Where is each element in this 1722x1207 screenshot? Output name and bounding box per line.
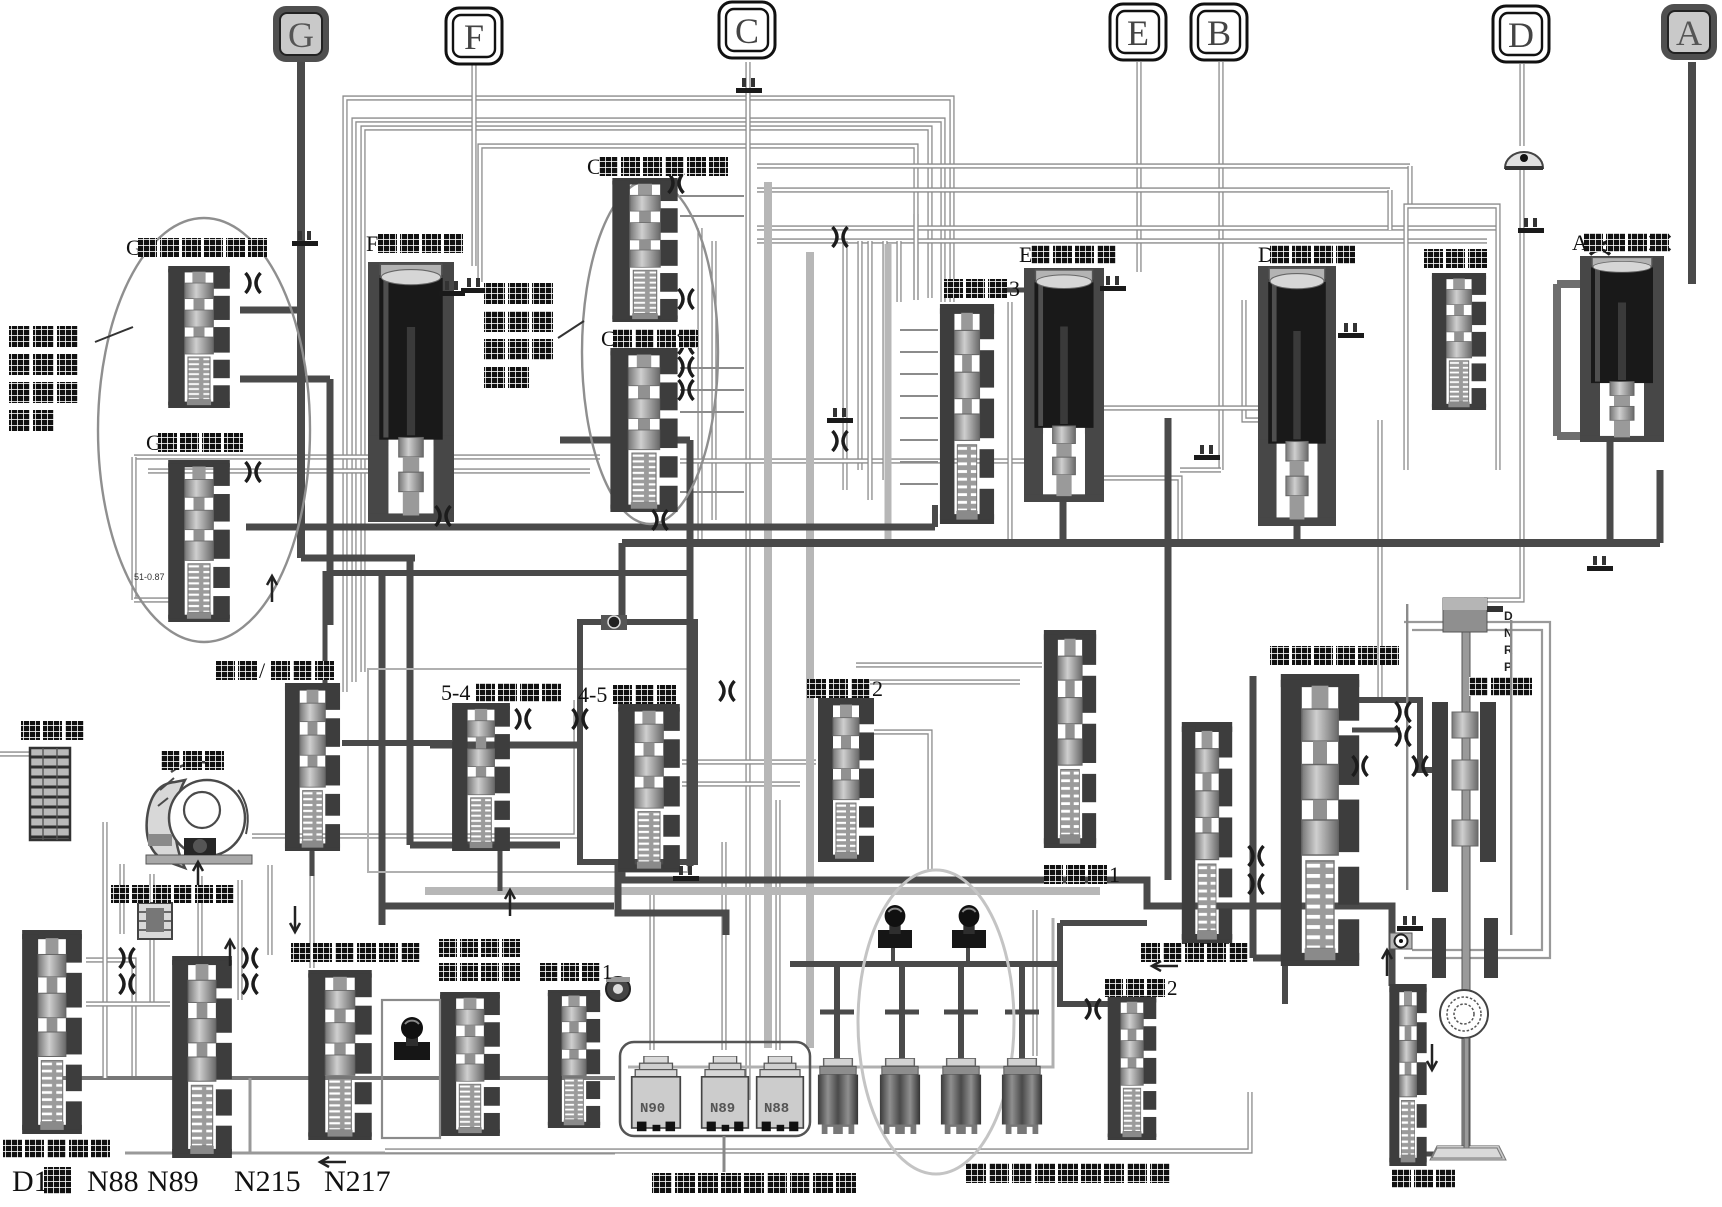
label A-clutch xyxy=(1572,230,1669,255)
wire: bus drop x885 xyxy=(882,241,887,480)
ellipse solenoid group xyxy=(858,870,1014,1174)
valve G-brake xyxy=(168,460,230,622)
label note-right-3 xyxy=(484,339,553,360)
converter pressure valve small xyxy=(138,903,172,939)
valve F-clutch xyxy=(368,262,454,522)
wire: x382 drop xyxy=(379,573,386,925)
svg-text:A: A xyxy=(1676,13,1702,53)
pipe: solenoid cap link xyxy=(628,918,1053,1067)
label manual xyxy=(1469,677,1532,696)
wire: C stem xyxy=(745,62,750,1100)
label E-clutch xyxy=(1019,242,1116,267)
wire: nested F loops xyxy=(345,98,952,692)
solenoid box N90 N89 N88 xyxy=(620,1042,810,1136)
svg-text:N88: N88 xyxy=(87,1165,139,1198)
svg-text:3: 3 xyxy=(1009,276,1020,301)
label note-right-2 xyxy=(484,311,553,332)
radiator xyxy=(30,748,70,840)
label reducer2 xyxy=(1105,976,1178,1000)
svg-text:B: B xyxy=(1207,13,1231,53)
terminal C xyxy=(719,2,775,58)
wire: reverse valve loop xyxy=(1406,206,1498,470)
valve pressure-limit xyxy=(1389,984,1426,1166)
svg-text:G: G xyxy=(288,15,314,55)
wire: mushroom stems xyxy=(891,948,895,964)
wire: shift3 bottom riser xyxy=(932,505,938,527)
svg-text:4-5: 4-5 xyxy=(578,682,607,707)
svg-text:51-0.87: 51-0.87 xyxy=(134,572,165,582)
wire: lockup link xyxy=(380,903,614,910)
wire: N89 tail xyxy=(723,1136,726,1172)
wire: left drop xyxy=(131,457,136,600)
wire: manual box inner xyxy=(1412,630,1542,950)
wire: F stem xyxy=(471,64,476,266)
svg-text:E: E xyxy=(1019,242,1032,267)
manual valve rails xyxy=(1406,604,1408,890)
pipe: wide x888 xyxy=(885,244,892,540)
label traction-coast xyxy=(216,658,334,683)
wire: lube left loop xyxy=(102,934,107,1078)
valve C-brake xyxy=(610,348,677,512)
wire: converter loop right xyxy=(252,700,576,836)
valve main-line-pressure xyxy=(1281,674,1359,966)
valve reducer2 xyxy=(1108,996,1157,1140)
wire: B lower tie xyxy=(1180,467,1221,472)
wire: main press decor xyxy=(1352,700,1432,770)
orifice marks xyxy=(246,273,261,293)
ellipse G group xyxy=(98,218,310,642)
valve C-brake-holding xyxy=(612,178,677,322)
valve reducer1 xyxy=(548,990,600,1128)
manual valve xyxy=(1430,598,1506,1160)
label converter-pressure xyxy=(111,885,234,903)
label reverse xyxy=(1424,249,1487,268)
svg-text:E: E xyxy=(1127,13,1149,53)
label F-clutch xyxy=(366,231,463,256)
ellipse C group xyxy=(582,180,718,524)
svg-text:/: / xyxy=(259,658,266,683)
label cpc-1 xyxy=(439,939,520,957)
wire: bottom rail xyxy=(125,1152,615,1155)
label note-left-3 xyxy=(9,382,78,403)
svg-text:5-4: 5-4 xyxy=(441,680,470,705)
wire: lube-aux link xyxy=(86,1001,170,1006)
wire: E-D link xyxy=(1102,478,1180,540)
wire: E top tie xyxy=(1000,288,1026,293)
label bottom-gear xyxy=(12,1165,391,1198)
label note-right-4 xyxy=(484,367,529,388)
label shift2 xyxy=(807,676,883,701)
label note-right-1 xyxy=(484,283,553,304)
terminal E xyxy=(1110,4,1166,60)
wire: left low rail drop xyxy=(249,1078,252,1153)
wire: D stem xyxy=(1519,64,1524,146)
wire: 5-4 drop xyxy=(498,851,503,891)
wire: shift2 to shift1 xyxy=(856,662,1042,667)
label C-brake xyxy=(601,326,698,351)
wire: D bottom xyxy=(1294,524,1301,543)
wire: A left pipe xyxy=(1553,284,1561,436)
solenoid N90 xyxy=(632,1056,681,1131)
valve D-brake xyxy=(1258,266,1336,526)
terminal F xyxy=(446,8,502,64)
terminal G xyxy=(273,6,329,62)
wire: traction valve drop xyxy=(309,852,314,968)
small round valve near manual xyxy=(1390,933,1412,949)
svg-text:N215: N215 xyxy=(234,1165,301,1198)
label note-left-2 xyxy=(9,354,78,375)
svg-text:1: 1 xyxy=(602,960,613,984)
wire: manual box outer xyxy=(1404,622,1550,958)
wire: mainpress frame xyxy=(1250,676,1257,958)
label note-left-4 xyxy=(9,410,54,431)
wire: ED lower loop xyxy=(1088,408,1275,470)
pipe: wide vertical1 xyxy=(764,182,772,1048)
wire: limit valve link xyxy=(1426,1152,1464,1157)
valve 5-4 traction xyxy=(452,703,510,851)
wire: D area loop xyxy=(1244,300,1334,420)
pointer line right xyxy=(558,321,584,338)
wire: bus y573 xyxy=(327,570,690,576)
wire: reducer1 elbow xyxy=(618,862,726,935)
wire: bus drop x870 xyxy=(867,241,872,500)
svg-text:N89: N89 xyxy=(147,1165,199,1198)
label G-brake-holding xyxy=(126,235,267,260)
svg-text:2: 2 xyxy=(1167,976,1178,1000)
svg-text:N88: N88 xyxy=(764,1101,789,1117)
wire: manual valve loop xyxy=(1377,420,1382,700)
wire: shift valve3 comb xyxy=(900,329,938,331)
D inline valve xyxy=(1505,152,1543,170)
wire: bus y558 xyxy=(301,555,415,562)
limit valve spiral xyxy=(1440,990,1488,1038)
valve G-brake-holding xyxy=(168,266,230,408)
label radiator xyxy=(21,721,84,740)
wire: lube riser xyxy=(86,960,134,1076)
wire: shift2 right xyxy=(874,732,930,870)
wire: main bus y543 xyxy=(622,539,1660,547)
wire: x410 drop xyxy=(407,558,414,845)
label G-brake xyxy=(146,430,243,455)
label limit xyxy=(1392,1169,1455,1188)
wire: G branch2 xyxy=(240,376,330,383)
round solenoid 3 xyxy=(941,1058,981,1134)
label cpc-2 xyxy=(439,963,520,981)
valve shift3 xyxy=(940,304,994,524)
solenoid N89 xyxy=(702,1056,749,1131)
orifice marks vertical xyxy=(1650,236,1670,251)
wire: traction drop xyxy=(310,851,315,876)
label switch-solenoids xyxy=(652,1173,856,1193)
wire: solenoid risers xyxy=(649,888,654,1050)
label reducer1 xyxy=(540,960,613,984)
valve lockup-clutch xyxy=(308,970,371,1140)
mushroom solenoid 2 xyxy=(952,905,986,948)
valve converter-pressure-control xyxy=(440,992,500,1136)
wire: C bottom links xyxy=(560,437,690,444)
svg-text:2: 2 xyxy=(872,676,883,701)
port symbols xyxy=(292,231,318,246)
wire: G hold branch xyxy=(240,307,301,314)
valve reverse xyxy=(1432,273,1486,410)
wire: bus end rise xyxy=(1657,470,1664,543)
wire: mid bus right xyxy=(680,458,1024,463)
svg-text:1: 1 xyxy=(1109,862,1120,887)
wire: light box mid xyxy=(368,669,688,872)
valve lube-pressure xyxy=(22,930,82,1134)
wire: sol stem x837 xyxy=(834,964,840,1058)
wire: bus drops xyxy=(896,241,901,302)
wire: E stem xyxy=(1136,62,1141,272)
label lube xyxy=(3,1139,110,1158)
lockup solenoid chamber xyxy=(382,1000,440,1138)
terminal D xyxy=(1493,6,1549,62)
label shift3 xyxy=(944,276,1020,301)
svg-text:N89: N89 xyxy=(710,1101,735,1117)
wire: C-valve right stubs xyxy=(680,195,744,197)
svg-text:N90: N90 xyxy=(640,1101,665,1117)
label note-left-1 xyxy=(9,326,78,347)
svg-text:D: D xyxy=(1508,15,1534,55)
wire: 4-5 to shift2 xyxy=(682,759,816,764)
wire: top bus xyxy=(757,225,1500,230)
pipe: wide vertical2 xyxy=(806,252,814,1048)
wire: sol stem x902 xyxy=(899,964,905,1058)
label converter xyxy=(161,751,224,770)
wire: B stem xyxy=(1218,62,1223,470)
label pressure-reg xyxy=(1141,943,1248,962)
wire: bottom trunk xyxy=(622,866,1392,986)
label lockup xyxy=(291,943,420,962)
label D-brake xyxy=(1258,242,1355,267)
wire: radiator pipes xyxy=(0,751,32,756)
terminal A xyxy=(1661,4,1717,60)
wire: shift1 feed xyxy=(1165,418,1172,880)
pipe: wide horizontal xyxy=(425,887,1100,895)
wire: bus y527 xyxy=(246,524,935,531)
round solenoid 2 xyxy=(880,1058,920,1134)
wire: mid bus left xyxy=(134,454,600,459)
valve E-clutch xyxy=(1024,268,1104,502)
svg-text:F: F xyxy=(366,231,378,256)
solenoid N88 xyxy=(757,1056,804,1131)
lockup solenoid xyxy=(394,1017,430,1060)
valve A-clutch xyxy=(1580,256,1664,442)
svg-text:N217: N217 xyxy=(324,1165,391,1198)
label C-brake-holding xyxy=(587,154,728,179)
label main-pressure xyxy=(1270,646,1399,665)
wire: sol4 riser xyxy=(1032,910,1037,1056)
wire: E drop below xyxy=(1060,500,1065,540)
label 4-5-shift xyxy=(578,682,676,707)
wire: A stem xyxy=(1688,62,1696,284)
wire: E bottom xyxy=(1060,500,1067,543)
valve aux-left xyxy=(172,956,232,1158)
wire: left low rail xyxy=(50,1076,615,1080)
round solenoid 4 xyxy=(1002,1058,1042,1134)
wire: bottom enclosure xyxy=(385,1092,1250,1151)
wire: converter pipes xyxy=(149,874,154,1004)
svg-text:D1: D1 xyxy=(12,1165,49,1198)
label reg-solenoids xyxy=(966,1163,1170,1183)
terminal B xyxy=(1191,4,1247,60)
svg-text:C: C xyxy=(735,11,759,51)
valve shift1 xyxy=(1044,630,1096,848)
label shift1 xyxy=(1044,862,1120,887)
pointer line left xyxy=(95,327,133,342)
wire: x325 drop xyxy=(323,571,328,690)
wire: E left rail xyxy=(1007,302,1012,540)
round solenoid 1 xyxy=(818,1058,858,1134)
svg-text:F: F xyxy=(464,17,484,57)
wire: solenoid manifold xyxy=(790,961,1060,967)
stand xyxy=(1432,1038,1502,1158)
wire: 5-4 link xyxy=(430,742,580,749)
wire: A bottom drop xyxy=(1607,440,1614,543)
wire: G stem xyxy=(297,62,305,558)
valve 4-5 shift xyxy=(618,704,680,872)
valve shift2 xyxy=(818,698,874,862)
wire: sol stem x961 xyxy=(958,964,964,1058)
valve pressure-regulator xyxy=(1182,722,1232,944)
wire: x622 drop xyxy=(619,543,626,622)
label 5-4-traction xyxy=(441,680,561,705)
wire: traction to 5-4 xyxy=(342,740,452,746)
little inline valve xyxy=(601,615,627,630)
wire: 4-5 box xyxy=(580,622,695,862)
valve traction-coast xyxy=(285,683,340,851)
arrows xyxy=(197,862,200,888)
reducer1 ball valve xyxy=(606,977,630,1001)
wire: reducer2 elbow xyxy=(1060,923,1116,1004)
wire: sol stem x1022 xyxy=(1019,964,1025,1058)
mushroom solenoid 1 xyxy=(878,905,912,948)
wire: center verticals xyxy=(697,228,702,540)
